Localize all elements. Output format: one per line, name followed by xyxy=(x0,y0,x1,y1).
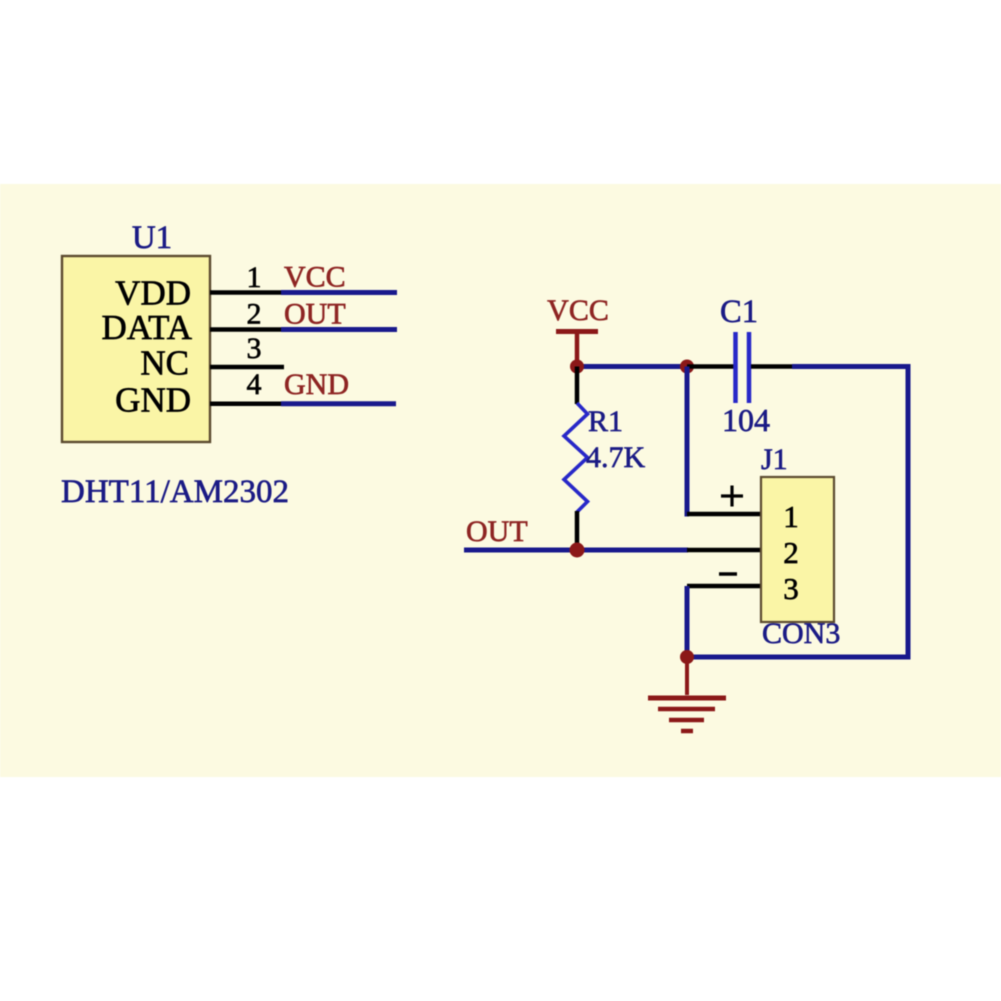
wire VCC junction to C1 junction xyxy=(577,364,687,369)
connector J1 pin 2 stub xyxy=(687,548,761,553)
wire bottom rail xyxy=(687,655,911,660)
ground bar 3 xyxy=(669,718,704,723)
svg-text:3: 3 xyxy=(783,571,799,606)
svg-text:104: 104 xyxy=(722,402,770,438)
minus sign at J1 pin 3 xyxy=(719,572,737,576)
junction node at R1/OUT xyxy=(570,543,585,558)
power port VCC stem xyxy=(575,332,580,367)
resistor R1 top lead xyxy=(575,367,580,405)
svg-text:C1: C1 xyxy=(720,294,758,330)
pin 3 stub of U1 (NC) xyxy=(210,365,284,370)
wire J1 pin 3 down to ground rail xyxy=(685,586,690,659)
wire OUT horizontal xyxy=(464,548,688,553)
svg-text:OUT: OUT xyxy=(466,515,528,548)
svg-text:GND: GND xyxy=(115,381,191,420)
capacitor C1 left plate xyxy=(733,332,738,403)
wire C1 junction down to J1 pin 1 xyxy=(687,367,689,515)
ground bar 2 xyxy=(658,707,715,712)
wire net VCC from pin 1 xyxy=(281,290,397,295)
svg-text:CON3: CON3 xyxy=(762,617,840,650)
svg-text:4: 4 xyxy=(247,368,262,401)
plus sign at J1 pin 1 xyxy=(721,494,743,497)
power port VCC bar symbol xyxy=(556,329,598,334)
svg-text:OUT: OUT xyxy=(284,298,346,331)
ground stem xyxy=(685,657,689,695)
capacitor C1 right plate xyxy=(747,332,752,403)
connector J1 body xyxy=(761,477,834,622)
svg-text:GND: GND xyxy=(284,368,349,401)
svg-text:2: 2 xyxy=(247,298,262,331)
ground bar 4 xyxy=(681,729,693,734)
svg-text:1: 1 xyxy=(247,261,262,294)
wire net GND from pin 4 xyxy=(281,401,396,406)
connector J1 pin 1 stub xyxy=(687,512,761,517)
capacitor C1 right lead xyxy=(751,364,794,369)
svg-text:J1: J1 xyxy=(761,443,788,476)
IC U1 body xyxy=(62,256,210,442)
svg-text:3: 3 xyxy=(247,332,262,365)
wire net OUT from pin 2 xyxy=(281,327,397,332)
svg-text:DHT11/AM2302: DHT11/AM2302 xyxy=(61,474,289,510)
svg-text:VDD: VDD xyxy=(115,274,191,313)
svg-text:U1: U1 xyxy=(132,220,172,256)
resistor R1 zigzag body xyxy=(564,403,588,512)
capacitor C1 left lead xyxy=(687,364,734,369)
junction node at C1/J1 column xyxy=(680,360,694,374)
wire C1 to right corner xyxy=(792,364,908,369)
svg-text:R1: R1 xyxy=(588,405,623,438)
connector J1 pin 3 stub xyxy=(687,584,761,589)
svg-text:DATA: DATA xyxy=(101,308,192,347)
svg-text:1: 1 xyxy=(783,499,799,534)
svg-text:VCC: VCC xyxy=(547,294,609,327)
pin 2 stub of U1 xyxy=(210,327,283,332)
resistor R1 bottom lead xyxy=(575,511,580,550)
junction node at ground xyxy=(680,650,694,664)
pin 4 stub of U1 xyxy=(210,402,283,407)
ground bar 1 xyxy=(648,696,726,701)
svg-text:NC: NC xyxy=(140,344,189,383)
pin 1 stub of U1 xyxy=(210,290,283,295)
svg-text:VCC: VCC xyxy=(284,261,346,294)
svg-text:2: 2 xyxy=(783,535,799,570)
junction node at VCC/R1 xyxy=(570,360,584,374)
svg-text:4.7K: 4.7K xyxy=(586,441,646,474)
wire right vertical xyxy=(906,364,911,660)
